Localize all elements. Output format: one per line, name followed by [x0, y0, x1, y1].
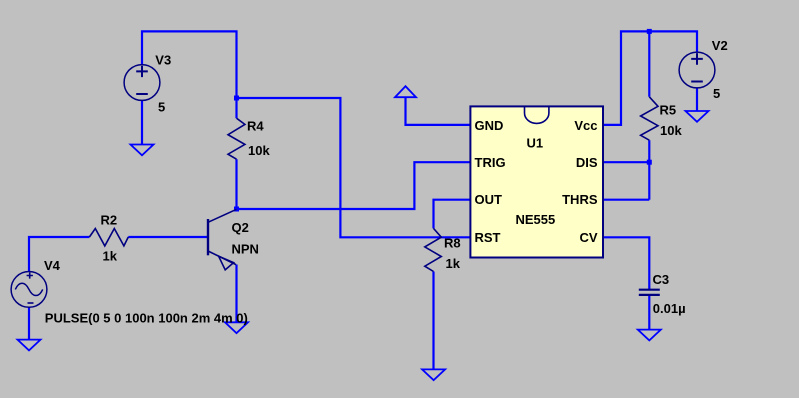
wire R2 to Q2 base	[128, 236, 207, 238]
svg-text:1k: 1k	[103, 248, 118, 263]
ground under V4	[18, 340, 41, 351]
svg-text:Q2: Q2	[232, 220, 249, 235]
svg-text:1k: 1k	[446, 256, 461, 271]
wire Vcc pin to V2 rail	[603, 31, 697, 125]
resistor R4	[228, 118, 245, 159]
svg-text:R2: R2	[101, 213, 118, 228]
svg-text:OUT: OUT	[475, 192, 503, 207]
junction node A	[234, 96, 239, 101]
svg-text:10k: 10k	[660, 123, 682, 138]
resistor R2	[89, 229, 128, 246]
svg-text:10k: 10k	[248, 143, 270, 158]
junction V2 rail node	[647, 29, 652, 34]
op-amp U1 NE555 body	[470, 106, 603, 257]
wire collector node to TRIG pin	[237, 162, 471, 209]
svg-text:V2: V2	[712, 38, 728, 53]
voltage source V3	[124, 65, 160, 101]
wire THRS pin	[603, 199, 649, 201]
wire R4 bottom to collector node	[235, 159, 237, 209]
junction collector node	[234, 207, 239, 212]
svg-text:Vcc: Vcc	[574, 118, 597, 133]
svg-text:R4: R4	[247, 119, 264, 134]
wire CV pin to C3	[603, 237, 649, 289]
wire R4 top lead	[235, 98, 237, 118]
power ground flag at GND pin	[395, 86, 416, 97]
svg-text:THRS: THRS	[562, 192, 598, 207]
wire DIS pin	[603, 161, 649, 163]
svg-text:NPN: NPN	[232, 241, 259, 256]
svg-text:5: 5	[713, 86, 720, 101]
voltage source V4	[11, 272, 47, 308]
wire V4 to R2	[29, 237, 89, 272]
svg-text:TRIG: TRIG	[475, 155, 506, 170]
transistor Q2	[208, 209, 237, 269]
resistor R8	[425, 228, 442, 271]
svg-text:0.01µ: 0.01µ	[653, 301, 686, 316]
wire power flag to GND pin	[406, 97, 471, 125]
ground under V3	[131, 145, 154, 156]
svg-text:NE555: NE555	[516, 212, 556, 227]
svg-text:CV: CV	[579, 230, 597, 245]
capacitor C3	[639, 290, 660, 295]
wire C3 bottom	[648, 295, 650, 330]
wire V4 bottom	[28, 307, 30, 339]
svg-text:R5: R5	[660, 103, 677, 118]
wire V3 top rail to node A	[142, 31, 237, 98]
wire V2 bottom	[696, 88, 698, 111]
svg-text:U1: U1	[527, 136, 544, 151]
ground under V2	[686, 111, 709, 122]
resistor R5	[641, 97, 658, 140]
svg-text:R8: R8	[444, 236, 461, 251]
ground under C3	[638, 330, 661, 341]
wire R5 bottom to THRS	[648, 140, 650, 200]
voltage source V2	[679, 52, 715, 88]
ground under R8	[422, 369, 445, 380]
junction DIS node	[647, 160, 652, 165]
wire R8 bottom to ground	[432, 272, 434, 370]
wire Q2 emitter to ground	[235, 265, 237, 323]
svg-text:5: 5	[158, 99, 165, 114]
svg-text:DIS: DIS	[576, 155, 598, 170]
svg-text:C3: C3	[653, 272, 670, 287]
wire OUT pin to R8	[434, 200, 471, 229]
svg-text:PULSE(0 5 0 100n 100n 2m 4m 0): PULSE(0 5 0 100n 100n 2m 4m 0)	[45, 310, 248, 325]
ground under Q2 emitter	[225, 322, 248, 333]
svg-text:V4: V4	[44, 258, 61, 273]
svg-text:RST: RST	[475, 230, 501, 245]
wire node A to RST pin	[237, 98, 471, 237]
wire V3 bottom	[141, 100, 143, 144]
svg-text:V3: V3	[155, 52, 171, 67]
wire R5 top lead	[648, 31, 650, 96]
svg-text:GND: GND	[475, 118, 504, 133]
